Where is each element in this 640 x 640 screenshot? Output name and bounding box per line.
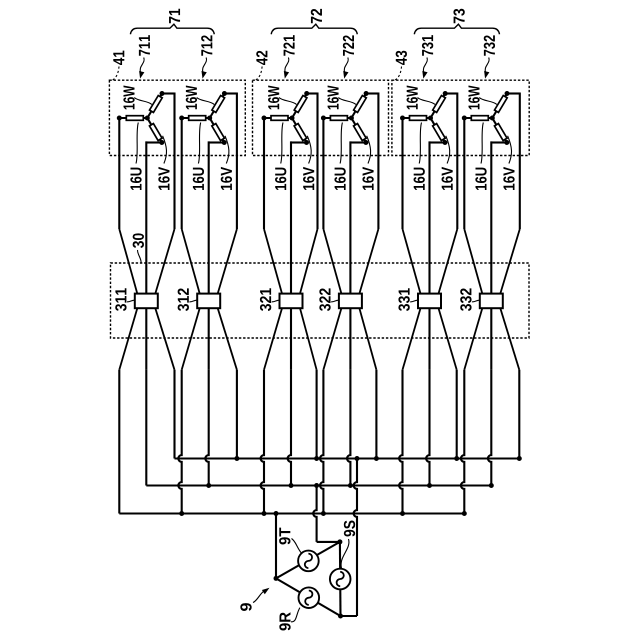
unit 731 16U lead wire bbox=[401, 118, 403, 229]
wire converter 331 T-phase drop bbox=[399, 370, 402, 514]
label 16V unit 732 bbox=[503, 167, 514, 190]
label 322 bbox=[319, 288, 330, 311]
winding 16U unit 731 bbox=[410, 116, 427, 121]
label 43 leader bbox=[395, 67, 402, 81]
label 16U unit 712 leader bbox=[198, 123, 200, 164]
wire into converter 332 left bbox=[464, 229, 482, 294]
node converter 332 to top bus bbox=[517, 456, 522, 461]
wire out of converter 312 right bbox=[218, 308, 237, 370]
bus bottom (T phase) bbox=[119, 512, 464, 514]
label 9T leader bbox=[292, 539, 302, 554]
label 9R bbox=[279, 612, 290, 630]
winding 16W unit 732 bbox=[495, 95, 508, 112]
wire into converter 312 right bbox=[218, 229, 237, 294]
label 312 bbox=[178, 288, 189, 311]
node converter 321 to bottom bus bbox=[262, 511, 267, 516]
wire out of converter 311 left bbox=[119, 308, 137, 370]
unit 722 wire 16V diagonal bbox=[351, 118, 366, 143]
node unit 732 bottom terminal bbox=[504, 140, 509, 145]
unit 731 wire 16U horizontal bbox=[403, 117, 431, 119]
node converter 321 to top bus bbox=[314, 456, 319, 461]
wire out of converter 332 right bbox=[500, 308, 519, 370]
label 16W unit 721 leader bbox=[279, 98, 297, 105]
label 312 leader bbox=[189, 300, 197, 302]
wire top bus to node C bbox=[341, 456, 360, 616]
node unit 722 star centre bbox=[349, 116, 354, 121]
winding 16W unit 712 bbox=[212, 95, 225, 112]
label 732 leader arrow bbox=[484, 58, 489, 79]
wire out of converter 331 right bbox=[439, 308, 457, 370]
label 16U unit 722 leader bbox=[340, 123, 342, 164]
label 16U unit 721 leader bbox=[281, 123, 283, 164]
wire converter 321 S-phase drop bbox=[288, 370, 291, 486]
node unit 732 top terminal bbox=[505, 91, 510, 96]
unit 731 wire 16V diagonal bbox=[431, 118, 446, 143]
wire into converter 322 right bbox=[359, 229, 378, 294]
node unit 721 bottom terminal bbox=[304, 140, 309, 145]
node unit 721 star centre bbox=[290, 116, 295, 121]
wire into converter 332 right bbox=[500, 229, 520, 294]
node unit 732 left terminal bbox=[462, 116, 467, 121]
wire out of converter 332 mid bbox=[490, 308, 492, 370]
wire converter 332 R-phase drop bbox=[518, 370, 520, 459]
node converter 331 to bottom bus bbox=[400, 511, 405, 516]
label 73 bbox=[453, 9, 464, 23]
label 9 arrow bbox=[253, 588, 270, 603]
bus top (R phase) bbox=[175, 457, 520, 459]
label 16U unit 732 bbox=[475, 168, 486, 190]
label 71 bbox=[169, 9, 180, 24]
unit 711 16W lead wire bbox=[162, 93, 175, 230]
wire out of converter 332 left bbox=[464, 308, 482, 370]
label 16W unit 731 leader bbox=[418, 98, 436, 105]
unit 712 16V lead wire bbox=[209, 141, 225, 293]
label 732 bbox=[484, 35, 495, 55]
unit 721 wire 16V diagonal bbox=[292, 118, 307, 143]
converter 312 bbox=[197, 294, 220, 309]
wire into converter 321 right bbox=[300, 229, 318, 294]
label 16V unit 711 leader bbox=[163, 136, 167, 164]
label 16V unit 722 leader bbox=[367, 136, 371, 164]
wire out of converter 321 left bbox=[264, 308, 282, 370]
node unit 731 bottom terminal bbox=[443, 140, 448, 145]
wire converter 321 T-phase drop bbox=[261, 370, 264, 514]
label 16V unit 721 leader bbox=[307, 136, 311, 164]
wire converter 322 T-phase drop bbox=[320, 370, 323, 514]
unit 712 16U lead wire bbox=[181, 118, 183, 229]
node converter 312 to bottom bus bbox=[179, 511, 184, 516]
wire out of converter 311 right bbox=[155, 308, 174, 370]
wire into converter 312 left bbox=[182, 229, 200, 294]
node converter 331 to top bus bbox=[454, 456, 459, 461]
label 321 leader bbox=[272, 300, 280, 302]
unit 722 wire 16W diagonal bbox=[351, 94, 366, 119]
node unit 712 top terminal bbox=[222, 91, 227, 96]
label 16W unit 711 leader bbox=[134, 98, 152, 105]
label 331 bbox=[398, 288, 409, 311]
node B bbox=[337, 539, 342, 544]
unit 722 16U lead wire bbox=[322, 118, 324, 229]
node unit 732 star centre bbox=[490, 116, 495, 121]
dashed box 43 bbox=[392, 80, 529, 155]
wire converter 311 T-phase drop bbox=[118, 370, 120, 514]
unit 712 wire 16V diagonal bbox=[210, 118, 225, 143]
label 16W unit 722 leader bbox=[338, 98, 356, 105]
label 16V unit 721 bbox=[303, 167, 314, 190]
converter 322 bbox=[339, 294, 362, 309]
wire converter 322 S-phase drop bbox=[347, 370, 350, 486]
unit 732 16U lead wire bbox=[463, 118, 465, 229]
winding 16V unit 731 bbox=[433, 124, 446, 141]
wire converter 332 T-phase drop bbox=[461, 370, 464, 514]
wire out of converter 312 left bbox=[182, 308, 200, 370]
label 16V unit 731 leader bbox=[446, 136, 450, 164]
wire converter 311 S-phase drop bbox=[145, 370, 147, 486]
wire converter 312 S-phase drop bbox=[205, 370, 208, 486]
label 9 bbox=[240, 603, 251, 611]
bracket 73 bbox=[414, 24, 499, 34]
wire converter 332 S-phase drop bbox=[488, 370, 491, 486]
label 331 leader bbox=[410, 300, 418, 302]
node unit 712 left terminal bbox=[179, 116, 184, 121]
label 16U unit 731 bbox=[414, 168, 425, 190]
node unit 712 bottom terminal bbox=[222, 140, 227, 145]
dashed box 42 bbox=[253, 80, 389, 155]
label 311 leader bbox=[127, 300, 135, 302]
wire delta edge A-B bbox=[276, 542, 340, 579]
unit 711 16V lead wire bbox=[146, 141, 162, 293]
label 16W unit 731 bbox=[407, 86, 418, 110]
wire into converter 322 left bbox=[323, 229, 341, 294]
unit 732 16V lead wire bbox=[491, 141, 507, 293]
wire out of converter 312 mid bbox=[208, 308, 210, 370]
label 712 leader arrow bbox=[202, 58, 207, 79]
label 30 leader bbox=[138, 250, 142, 263]
unit 721 wire 16W diagonal bbox=[292, 94, 307, 119]
wire into converter 331 left bbox=[403, 229, 421, 294]
label 731 bbox=[422, 35, 433, 56]
label 722 bbox=[343, 35, 354, 55]
node unit 711 top terminal bbox=[160, 91, 165, 96]
label 16U unit 721 bbox=[275, 168, 286, 190]
label 16W unit 732 bbox=[468, 86, 479, 110]
wire converter 312 T-phase drop bbox=[178, 370, 181, 514]
bracket 71 bbox=[130, 24, 214, 34]
node unit 731 top terminal bbox=[443, 91, 448, 96]
node unit 721 top terminal bbox=[304, 91, 309, 96]
winding 16U unit 711 bbox=[126, 116, 143, 121]
wire converter 311 R-phase drop bbox=[173, 370, 175, 459]
node unit 712 star centre bbox=[207, 116, 212, 121]
ac source 9S bbox=[330, 569, 351, 590]
node unit 711 left terminal bbox=[117, 116, 122, 121]
unit 732 wire 16U horizontal bbox=[464, 117, 492, 119]
wire into converter 311 right bbox=[155, 229, 174, 294]
label 731 leader arrow bbox=[422, 58, 427, 79]
unit 722 16W lead wire bbox=[366, 93, 378, 230]
label 9R leader bbox=[291, 608, 300, 622]
node unit 731 star centre bbox=[428, 116, 433, 121]
wire out of converter 331 left bbox=[403, 308, 421, 370]
label 16V unit 712 leader bbox=[225, 136, 229, 164]
winding 16W unit 711 bbox=[150, 95, 163, 112]
winding 16W unit 731 bbox=[433, 95, 446, 112]
converter 311 bbox=[135, 294, 158, 309]
label 16V unit 732 leader bbox=[508, 136, 512, 164]
node converter 312 to top bus bbox=[234, 456, 239, 461]
node unit 721 left terminal bbox=[262, 116, 267, 121]
label 9S leader bbox=[341, 539, 349, 568]
label 721 leader arrow bbox=[284, 58, 289, 79]
unit 721 16V lead wire bbox=[291, 141, 307, 293]
node converter 312 to middle bus bbox=[206, 483, 211, 488]
winding 16V unit 732 bbox=[494, 124, 507, 141]
wire out of converter 322 right bbox=[359, 308, 376, 370]
label 41 leader bbox=[113, 67, 120, 81]
node converter 331 to middle bus bbox=[427, 483, 432, 488]
unit 721 16W lead wire bbox=[307, 93, 318, 230]
wire converter 321 R-phase drop bbox=[316, 370, 318, 459]
wire converter 322 R-phase drop bbox=[375, 370, 377, 459]
node C bbox=[338, 614, 343, 619]
node unit 722 top terminal bbox=[364, 91, 369, 96]
label 16V unit 712 bbox=[221, 167, 232, 190]
unit 712 16W lead wire bbox=[224, 93, 237, 230]
wire delta edge A-C bbox=[276, 578, 341, 616]
winding 16V unit 721 bbox=[294, 124, 307, 141]
wire middle bus to node B bbox=[313, 483, 340, 542]
label 16V unit 722 bbox=[362, 167, 373, 190]
ac source 9T bbox=[298, 551, 319, 572]
winding 16U unit 712 bbox=[189, 116, 206, 121]
node unit 711 bottom terminal bbox=[159, 140, 164, 145]
wire out of converter 322 left bbox=[323, 308, 341, 370]
label 722 leader arrow bbox=[343, 58, 348, 79]
label 42 leader bbox=[256, 67, 263, 81]
wire converter 331 R-phase drop bbox=[456, 370, 458, 459]
bus middle (S phase) bbox=[146, 484, 491, 486]
node converter 322 to middle bus bbox=[348, 483, 353, 488]
label 16U unit 711 leader bbox=[136, 123, 138, 164]
winding 16V unit 712 bbox=[212, 124, 225, 141]
label 72 bbox=[311, 9, 322, 23]
unit 732 wire 16W diagonal bbox=[492, 94, 507, 119]
winding 16W unit 721 bbox=[294, 95, 307, 112]
label 332 bbox=[460, 288, 471, 311]
label 42 bbox=[256, 51, 267, 65]
winding 16V unit 711 bbox=[149, 124, 162, 141]
node converter 332 to middle bus bbox=[489, 483, 494, 488]
label 16W unit 712 leader bbox=[197, 98, 215, 105]
node converter 322 to top bus bbox=[374, 456, 379, 461]
wire delta edge B-C bbox=[339, 542, 342, 616]
unit 732 wire 16V diagonal bbox=[492, 118, 507, 143]
node converter 322 to bottom bus bbox=[321, 511, 326, 516]
converter 321 bbox=[280, 294, 303, 309]
label 16U unit 732 leader bbox=[481, 123, 483, 164]
node unit 731 left terminal bbox=[400, 116, 405, 121]
unit 731 wire 16W diagonal bbox=[431, 94, 446, 119]
node converter 332 to bottom bus bbox=[462, 511, 467, 516]
node unit 711 star centre bbox=[145, 116, 150, 121]
wire out of converter 321 mid bbox=[290, 308, 292, 370]
unit 731 16W lead wire bbox=[445, 93, 457, 230]
label 16V unit 711 bbox=[158, 167, 169, 190]
unit 711 16U lead wire bbox=[118, 118, 120, 229]
unit 721 16U lead wire bbox=[263, 118, 265, 229]
node A bbox=[274, 576, 279, 581]
unit 722 wire 16U horizontal bbox=[323, 117, 351, 119]
unit 711 wire 16U horizontal bbox=[119, 117, 147, 119]
label 311 bbox=[115, 288, 126, 311]
label 16V unit 731 bbox=[442, 167, 453, 190]
label 16U unit 712 bbox=[193, 168, 204, 190]
label 16U unit 711 bbox=[130, 168, 141, 190]
node unit 722 bottom terminal bbox=[363, 140, 368, 145]
dashed box 41 bbox=[109, 80, 245, 155]
wire out of converter 331 mid bbox=[428, 308, 430, 370]
winding 16U unit 721 bbox=[271, 116, 288, 121]
wire into converter 321 left bbox=[264, 229, 282, 294]
label 711 bbox=[139, 35, 150, 56]
converter 331 bbox=[418, 294, 441, 309]
label 322 leader bbox=[331, 300, 339, 302]
wire converter 312 R-phase drop bbox=[236, 370, 238, 459]
winding 16U unit 722 bbox=[330, 116, 347, 121]
label 43 bbox=[396, 51, 407, 65]
unit 712 wire 16W diagonal bbox=[210, 94, 225, 119]
label 41 bbox=[113, 51, 124, 65]
converter 332 bbox=[480, 294, 503, 309]
unit 722 16V lead wire bbox=[350, 141, 366, 293]
wire out of converter 321 right bbox=[300, 308, 317, 370]
label 16U unit 722 bbox=[334, 168, 345, 190]
label 16W unit 732 leader bbox=[479, 98, 497, 105]
label 16W unit 722 bbox=[327, 86, 338, 110]
label 711 leader arrow bbox=[139, 58, 144, 79]
wire out of converter 322 mid bbox=[349, 308, 351, 370]
label 16W unit 721 bbox=[268, 86, 279, 110]
unit 711 wire 16V diagonal bbox=[147, 118, 162, 143]
wire bottom bus to node A bbox=[274, 511, 279, 578]
unit 711 wire 16W diagonal bbox=[147, 94, 162, 119]
unit 721 wire 16U horizontal bbox=[264, 117, 292, 119]
winding 16U unit 732 bbox=[471, 116, 488, 121]
unit 731 16V lead wire bbox=[430, 141, 446, 293]
unit 712 wire 16U horizontal bbox=[182, 117, 210, 119]
wire into converter 331 right bbox=[439, 229, 458, 294]
label 712 bbox=[201, 35, 212, 55]
winding 16W unit 722 bbox=[354, 95, 367, 112]
unit 732 16W lead wire bbox=[507, 93, 520, 230]
label 30 bbox=[133, 233, 144, 248]
ac source 9R bbox=[299, 587, 320, 608]
winding 16V unit 722 bbox=[354, 124, 367, 141]
label 721 bbox=[283, 35, 294, 56]
wire out of converter 311 mid bbox=[145, 308, 147, 370]
wire converter 331 S-phase drop bbox=[426, 370, 429, 486]
bracket 72 bbox=[271, 24, 357, 34]
label 9T bbox=[279, 528, 290, 545]
label 16U unit 731 leader bbox=[419, 123, 421, 164]
wire into converter 311 left bbox=[119, 229, 137, 294]
dashed box 30 bbox=[111, 263, 530, 338]
node unit 722 left terminal bbox=[321, 116, 326, 121]
label 332 leader bbox=[472, 300, 480, 302]
label 9S bbox=[344, 521, 355, 537]
label 16W unit 711 bbox=[123, 86, 134, 110]
label 16W unit 712 bbox=[186, 86, 197, 110]
label 321 bbox=[260, 288, 271, 311]
node converter 321 to middle bus bbox=[289, 483, 294, 488]
